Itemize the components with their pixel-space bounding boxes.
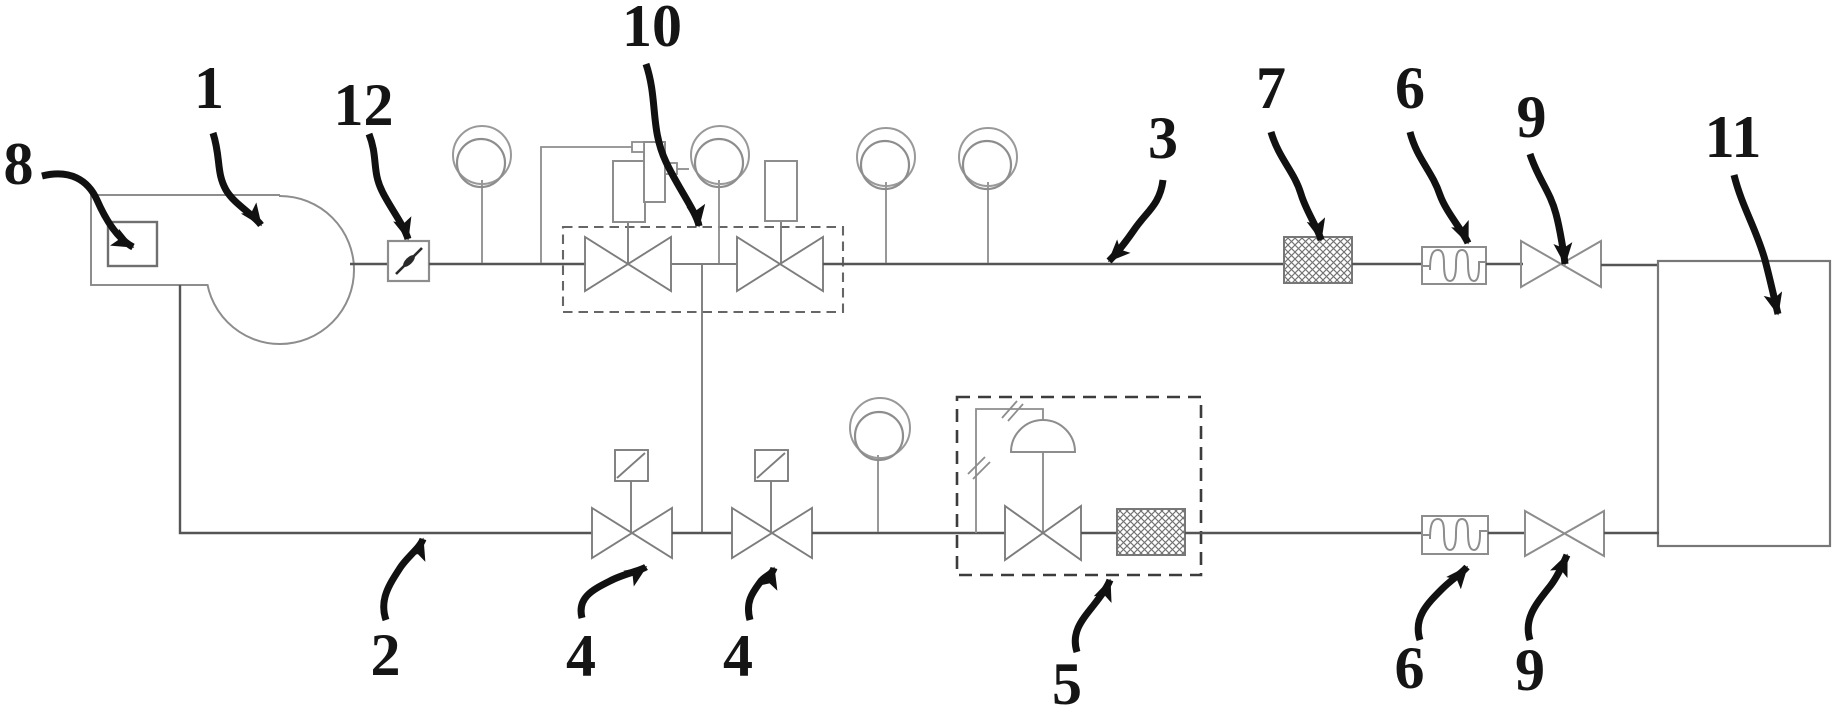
- svg-text:10: 10: [622, 0, 682, 59]
- arrow 6 bottom: [1418, 567, 1467, 640]
- svg-text:7: 7: [1256, 55, 1286, 121]
- gauge P1: [453, 126, 511, 184]
- arrow 5: [1075, 580, 1110, 652]
- svg-text:3: 3: [1148, 105, 1178, 171]
- arrow 9 bottom: [1528, 555, 1567, 640]
- svg-text:6: 6: [1395, 635, 1425, 701]
- gauge P2 stem: [718, 180, 720, 263]
- motor box 8: [108, 222, 157, 266]
- valve 10b stem: [780, 221, 782, 263]
- flexible joint 6 bottom box: [1422, 516, 1488, 554]
- control valve 5 bowtie: [1005, 506, 1081, 560]
- gauge P2: [691, 126, 749, 184]
- gauge P1 stem: [481, 180, 483, 263]
- flexible joint 6 top wave: [1422, 250, 1486, 281]
- svg-text:1: 1: [194, 55, 224, 121]
- wire: valve 9 to chamber 11: [1601, 264, 1659, 266]
- arrow 2: [384, 539, 423, 620]
- svg-text:12: 12: [334, 72, 394, 138]
- shutoff valve 9 bottom bowtie: [1525, 511, 1604, 556]
- wire: valve assembly 10 to filter 7: [823, 263, 1285, 265]
- gauge P5: [850, 398, 910, 458]
- control valve 5 stem: [1042, 452, 1044, 533]
- gauge P3 stem: [885, 182, 887, 263]
- svg-text:4: 4: [566, 623, 596, 689]
- valve 4a stem: [630, 481, 632, 533]
- wire: device 12 to valve assembly 10: [429, 263, 586, 265]
- actuator right port nub: [665, 163, 677, 174]
- valve 4b stem: [770, 481, 772, 533]
- signal break marks horizontal: [1002, 401, 1023, 421]
- wire: filter 7 to flexible joint 6: [1352, 263, 1422, 265]
- gauge P4 stem: [987, 182, 989, 263]
- hand valve 4b bowtie: [732, 508, 812, 558]
- arrow 7: [1271, 132, 1321, 240]
- gauge P5 stem: [877, 455, 879, 532]
- arrow 9: [1530, 154, 1565, 264]
- device 12 box: [388, 241, 429, 281]
- valve 4a handle box: [615, 450, 648, 481]
- control valve 10a bowtie: [585, 237, 671, 291]
- crossover wire from 10 down to bottom line: [701, 264, 703, 533]
- wire: valve 5 to muffler: [1081, 532, 1118, 534]
- wire between valves 4: [672, 532, 732, 534]
- arrow 12: [369, 134, 408, 239]
- wire: valve 4b to box 5: [812, 532, 1006, 534]
- actuator dome of control valve 5: [1011, 420, 1075, 452]
- svg-text:8: 8: [4, 131, 34, 197]
- pump 1 body rectangle: [92, 196, 279, 284]
- valve 4b handle box: [755, 450, 788, 481]
- arrow 6: [1410, 132, 1468, 243]
- control valve 10b bowtie: [737, 237, 823, 291]
- gauge P3: [857, 128, 915, 186]
- svg-text:2: 2: [371, 622, 401, 688]
- flexible joint 6 top box: [1422, 247, 1486, 284]
- svg-text:5: 5: [1052, 651, 1082, 712]
- arrow 4a: [581, 567, 646, 618]
- hand valve 4a bowtie: [592, 508, 672, 558]
- wire: box 5 to joint 6 bottom: [1185, 532, 1422, 534]
- pump 1 volute circle: [206, 196, 354, 344]
- wire: pump down leg: [180, 285, 592, 533]
- svg-text:11: 11: [1705, 104, 1762, 170]
- actuator left port nub: [632, 142, 644, 152]
- positioner box of 10a: [613, 161, 645, 222]
- arrow 8: [42, 174, 133, 247]
- valve 10a stem: [627, 222, 629, 263]
- signal break marks vertical: [968, 457, 990, 479]
- solenoid box of 10b: [765, 161, 797, 221]
- dashed enclosure 10: [563, 227, 843, 312]
- shutoff valve 9 top bowtie: [1521, 241, 1601, 287]
- device 12 vane: [396, 248, 422, 274]
- flexible joint 6 bottom wave: [1422, 519, 1488, 550]
- arrow 1: [213, 133, 261, 225]
- svg-text:6: 6: [1395, 55, 1425, 121]
- arrow 11: [1734, 175, 1778, 314]
- actuator box of 10a: [644, 142, 665, 202]
- svg-text:4: 4: [723, 623, 753, 689]
- dashed enclosure 5: [957, 397, 1201, 575]
- signal wire from pipe to positioner of 10: [541, 147, 634, 263]
- signal wire in 5: [976, 409, 1043, 533]
- wire: valve 9 bottom to chamber 11: [1604, 532, 1659, 534]
- wire: joint to valve 9 bottom: [1488, 532, 1526, 534]
- wire: joint 6 to valve 9 top: [1486, 263, 1523, 265]
- chamber 11: [1658, 261, 1830, 546]
- svg-text:9: 9: [1515, 637, 1545, 703]
- arrow 10: [646, 64, 699, 226]
- arrow 4b: [748, 568, 774, 620]
- muffler crosshatched box in 5: [1117, 509, 1185, 555]
- arrow 3: [1109, 180, 1163, 261]
- gauge P4: [959, 128, 1017, 186]
- svg-text:9: 9: [1517, 84, 1547, 150]
- wire: pump outlet to device 12: [350, 263, 389, 265]
- wire between valves of 10: [671, 263, 737, 265]
- filter 7 crosshatched box: [1284, 237, 1352, 283]
